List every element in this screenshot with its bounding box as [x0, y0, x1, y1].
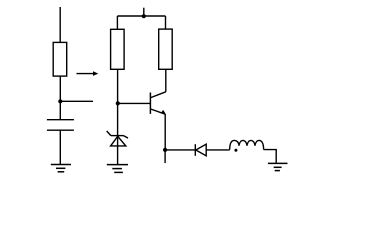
capacitor C1 bottom plate — [47, 129, 74, 131]
diode D2 — [195, 144, 206, 156]
zener diode D1 — [107, 131, 128, 146]
node A junction dot — [58, 99, 62, 103]
wire top rail — [117, 15, 165, 17]
wire input top — [59, 7, 61, 42]
wire zener branch — [117, 103, 119, 164]
wire R3 to collector — [165, 69, 167, 92]
transistor Q1 — [150, 92, 165, 114]
ground left — [51, 165, 71, 172]
ground middle — [107, 165, 128, 173]
resistor R3 — [159, 29, 173, 69]
wire C1 to ground — [59, 130, 61, 164]
wire base — [118, 102, 150, 104]
arrow pointing right — [77, 71, 99, 76]
wire R2 to node B — [117, 69, 119, 103]
wire supply stub — [143, 8, 145, 16]
wire D2 to L1 — [206, 149, 230, 151]
wire L1 to ground corner — [264, 150, 277, 164]
ground right — [268, 163, 288, 170]
resistor R1 — [53, 42, 66, 76]
L1 polarity dot — [234, 149, 237, 152]
wire node C to D2 — [165, 149, 195, 151]
capacitor C1 top plate — [47, 119, 74, 121]
node C emitter junction dot — [163, 148, 167, 152]
wire emitter down — [164, 114, 166, 150]
resistor R2 — [111, 29, 125, 69]
wire node A stub right — [60, 100, 93, 102]
inductor L1 — [230, 140, 264, 149]
wire rail to R2 — [116, 16, 118, 29]
wire R1 bottom to node A — [59, 76, 61, 120]
node B junction dot — [116, 101, 120, 105]
wire rail to R3 — [165, 16, 167, 29]
wire node C stub down — [164, 150, 166, 163]
node supply junction dot — [142, 14, 146, 18]
